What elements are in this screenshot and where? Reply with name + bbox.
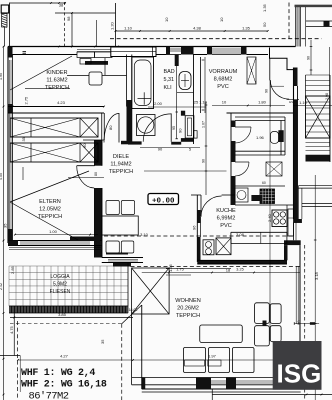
svg-text:ISG: ISG [277, 359, 322, 389]
svg-text:PVC: PVC [220, 223, 232, 229]
svg-text:1.95: 1.95 [0, 73, 3, 80]
svg-text:KUCHE: KUCHE [216, 208, 236, 214]
svg-text:3.18: 3.18 [314, 271, 319, 280]
svg-text:4.27: 4.27 [60, 354, 69, 359]
svg-text:VORRAUM: VORRAUM [209, 69, 238, 75]
svg-text:3.08: 3.08 [236, 232, 245, 237]
svg-text:20.26M2: 20.26M2 [177, 306, 199, 312]
svg-text:10: 10 [222, 100, 227, 105]
svg-text:5,31: 5,31 [164, 77, 175, 83]
svg-text:1.80: 1.80 [258, 100, 267, 105]
svg-text:4.75: 4.75 [9, 325, 14, 334]
svg-text:6,99M2: 6,99M2 [217, 216, 236, 222]
svg-text:10: 10 [219, 17, 224, 22]
svg-text:95: 95 [172, 126, 176, 130]
svg-text:1.35: 1.35 [242, 26, 251, 31]
svg-text:18.02: 18.02 [129, 308, 138, 312]
svg-text:1.35: 1.35 [262, 3, 267, 12]
svg-text:1.10: 1.10 [299, 100, 308, 105]
svg-text:3.25: 3.25 [236, 268, 243, 272]
svg-text:WHF 2: WG 16,18: WHF 2: WG 16,18 [21, 380, 107, 391]
svg-text:KINDER: KINDER [46, 70, 67, 76]
svg-text:35: 35 [3, 223, 8, 228]
svg-text:1.00: 1.00 [49, 229, 58, 234]
svg-text:80: 80 [108, 125, 113, 130]
svg-text:KLI: KLI [164, 85, 172, 91]
svg-text:60: 60 [262, 181, 266, 185]
svg-text:8,68M2: 8,68M2 [214, 77, 233, 83]
svg-text:90: 90 [265, 89, 269, 93]
svg-text:PVC: PVC [217, 84, 229, 90]
svg-text:35: 35 [22, 137, 26, 141]
svg-text:2.42: 2.42 [0, 283, 3, 290]
svg-text:4.38: 4.38 [193, 26, 202, 31]
svg-text:90: 90 [307, 56, 311, 60]
svg-text:90: 90 [82, 143, 87, 148]
svg-text:90: 90 [202, 159, 206, 163]
svg-text:ELTERN: ELTERN [39, 199, 61, 205]
svg-text:FLIESEN: FLIESEN [50, 289, 71, 295]
svg-text:TEPPICH: TEPPICH [45, 85, 69, 91]
svg-text:90: 90 [178, 128, 183, 133]
svg-text:BAD: BAD [164, 69, 175, 75]
svg-text:35: 35 [100, 339, 105, 344]
svg-text:WHF 1: WG 2,4: WHF 1: WG 2,4 [21, 368, 95, 379]
svg-text:10: 10 [164, 17, 169, 22]
svg-text:11.63M2: 11.63M2 [46, 78, 67, 84]
svg-text:1.35: 1.35 [168, 263, 173, 272]
svg-text:80: 80 [94, 172, 98, 176]
svg-text:38: 38 [59, 3, 64, 8]
svg-text:1.10: 1.10 [124, 26, 133, 31]
svg-text:4.23: 4.23 [57, 100, 66, 105]
svg-text:2.75: 2.75 [24, 96, 29, 105]
svg-text:1.10: 1.10 [199, 100, 208, 105]
svg-text:96: 96 [192, 225, 197, 230]
svg-text:TEPPICH: TEPPICH [176, 313, 200, 319]
svg-text:WOHNEN: WOHNEN [175, 298, 200, 304]
svg-text:2.98: 2.98 [325, 93, 329, 100]
svg-text:TEPPICH: TEPPICH [109, 169, 133, 175]
svg-text:TEPPICH: TEPPICH [38, 214, 62, 220]
svg-text:1.20: 1.20 [110, 21, 115, 30]
svg-text:18: 18 [226, 268, 231, 273]
svg-text:50: 50 [262, 22, 267, 27]
svg-text:2.85: 2.85 [10, 265, 15, 274]
svg-text:1.97: 1.97 [208, 354, 217, 359]
svg-text:DIELE: DIELE [113, 154, 129, 160]
svg-text:1.75: 1.75 [176, 268, 183, 272]
svg-text:1.96: 1.96 [256, 135, 265, 140]
svg-text:5,9M2: 5,9M2 [53, 282, 67, 288]
svg-text:86: 86 [296, 320, 301, 325]
svg-text:3.85: 3.85 [58, 312, 67, 317]
svg-text:2.40: 2.40 [267, 213, 272, 222]
svg-text:12.05M2: 12.05M2 [39, 207, 61, 213]
svg-text:2.00: 2.00 [154, 101, 163, 106]
svg-text:+0.00: +0.00 [152, 197, 175, 205]
svg-text:11,94M2: 11,94M2 [110, 162, 131, 168]
svg-text:LOGGIA: LOGGIA [50, 274, 70, 280]
svg-text:86'77M2: 86'77M2 [29, 391, 69, 400]
svg-text:98: 98 [66, 16, 71, 21]
svg-text:4.55: 4.55 [0, 173, 3, 180]
svg-text:3.10: 3.10 [140, 232, 149, 237]
svg-text:1.07: 1.07 [202, 121, 206, 128]
